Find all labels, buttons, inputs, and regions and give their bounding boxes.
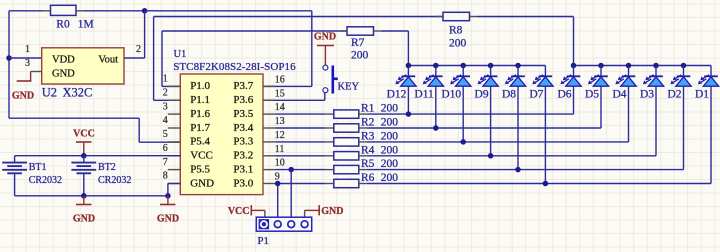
svg-text:VCC: VCC [73,129,95,140]
label D3 [640,89,654,101]
wire P1.1 to R8 (outer line) [154,17,443,101]
svg-text:CR2032: CR2032 [29,175,62,186]
svg-text:U1: U1 [174,49,187,60]
wire P1.0 to R7 (inner line) [162,31,347,86]
resistor R3 [276,138,629,146]
LED D3 [643,66,664,156]
node D8 to R5 row junction [515,167,521,173]
node LED bus junction [681,63,687,69]
svg-text:P5.4: P5.4 [190,136,210,148]
pin number 6 of U1 [163,143,168,154]
pin number 15 of U1 [275,88,285,99]
pin number 3 of U1 [163,101,168,112]
pin number 9 of U1 [275,172,280,183]
node D12 to R1 row junction [406,111,412,117]
label R6 200 [361,172,398,184]
svg-text:VCC: VCC [228,206,250,217]
svg-text:D11: D11 [414,89,434,101]
label U2 X32C [42,86,93,100]
LED D5 [588,66,609,129]
svg-text:6: 6 [163,143,168,154]
node R0 right junction [142,8,148,14]
svg-text:R2: R2 [361,117,375,129]
svg-text:8: 8 [163,171,168,182]
label R3 200 [361,130,398,142]
wire P1 pin4 stub [304,210,306,217]
svg-text:GND: GND [52,68,75,79]
svg-text:P1.1: P1.1 [190,94,210,106]
resistor R5 [276,165,684,173]
label D1 [695,89,709,101]
pin number 11 of U1 [275,144,285,155]
svg-text:R4: R4 [361,144,375,156]
resistor R8 [435,12,574,65]
wire R0 left + left vertical rail [9,11,180,142]
svg-text:P3.4: P3.4 [233,122,253,134]
svg-text:R1: R1 [361,103,375,115]
svg-text:10: 10 [275,158,285,169]
svg-text:P3.5: P3.5 [233,108,253,120]
label BT1 CR2032 [29,175,62,186]
node D9 to R4 row junction [488,153,494,159]
svg-text:VDD: VDD [52,54,75,65]
pin number 1 of U2 [25,44,30,55]
node LED bus junction [460,63,466,69]
svg-text:13: 13 [275,116,285,127]
svg-text:D9: D9 [475,89,489,101]
resistor R2 [276,124,602,132]
svg-text:D6: D6 [557,89,571,101]
svg-text:200: 200 [381,130,399,142]
node P3.0 to P1 junction [275,181,281,187]
svg-text:P5.5: P5.5 [190,163,210,175]
LED D8 [505,66,526,170]
label R4 200 [361,144,398,156]
svg-text:R0: R0 [56,19,70,31]
node U1 GND junction [165,193,171,199]
node VCC-BT2 junction [81,153,87,159]
svg-text:GND: GND [157,214,179,225]
node U2 VDD junction [6,55,12,61]
wire LED bus left (R7 group) [408,65,545,67]
svg-text:X32C: X32C [63,86,93,100]
ground GND below batteries [73,196,95,225]
node BT2 GND junction [81,193,87,199]
label D12 [387,89,407,101]
node LED bus junction [598,63,604,69]
LED D2 [670,66,691,170]
pin number 1 of U1 [163,74,168,85]
resistor R6 [276,179,712,187]
IC U1 STC8F2K08S2 body [168,74,276,195]
label BT2 CR2032 [98,175,131,186]
pin number 16 of U1 [275,74,285,85]
wire P1 pin2 to P3.0 [277,184,279,218]
svg-text:P3.0: P3.0 [233,177,253,189]
svg-text:CR2032: CR2032 [98,175,131,186]
label KEY [338,82,360,93]
svg-text:P3.1: P3.1 [233,163,253,175]
label D8 [502,89,516,101]
svg-text:R8: R8 [449,25,463,37]
wire LED bus right (R8 group) [574,65,712,67]
LED D9 [478,66,499,156]
LED D4 [615,66,636,142]
ground GND above KEY [314,32,336,65]
svg-text:D3: D3 [640,89,654,101]
svg-text:11: 11 [275,144,285,155]
svg-text:R5: R5 [361,158,375,170]
svg-text:16: 16 [275,74,285,85]
label D2 [667,89,681,101]
svg-text:P1.7: P1.7 [190,122,210,134]
svg-text:GND: GND [314,32,336,43]
power VCC symbol at batteries [73,129,95,156]
node LED bus junction [515,63,521,69]
svg-text:BT1: BT1 [29,162,47,173]
connector P1 [256,217,311,231]
label R2 200 [361,117,398,129]
LED D10 [450,66,471,142]
node LED bus junction [653,63,659,69]
node LED bus junction [626,63,632,69]
svg-text:U2: U2 [42,86,57,100]
label D7 [529,89,543,101]
svg-text:GND: GND [190,177,214,189]
svg-text:STC8F2K08S2-28I-SOP16: STC8F2K08S2-28I-SOP16 [173,61,296,73]
wire net P3.7 top (to KEY branch) [145,11,312,87]
svg-text:7: 7 [163,157,168,168]
label BT1 [29,162,47,173]
svg-text:D5: D5 [585,89,599,101]
svg-text:P3.6: P3.6 [233,94,253,106]
pin number 2 of U2 [136,44,141,55]
pin number 3 of U2 [25,58,30,69]
node D11 to R2 row junction [433,125,439,131]
node LED bus junction [571,63,577,69]
pin number 5 of U1 [163,129,168,140]
svg-text:GND: GND [12,91,34,102]
svg-text:P3.2: P3.2 [233,150,253,162]
svg-text:3: 3 [163,101,168,112]
resistor R7 [339,27,408,66]
svg-text:D12: D12 [387,89,407,101]
label U1 [174,49,187,60]
label BT2 [98,162,116,173]
pin number 2 of U1 [163,88,168,99]
svg-text:D10: D10 [441,89,461,101]
label D5 [585,89,599,101]
svg-text:2: 2 [136,44,141,55]
node D7 to R6 row junction [543,181,549,187]
wire P1 pin3 to P3.1 [290,170,292,218]
label D9 [475,89,489,101]
LED D7 [532,66,553,184]
svg-text:D4: D4 [612,89,626,101]
wire junction to U2 Vout pin 2 [124,11,145,58]
wire U1 pin 8 GND [168,184,180,196]
svg-text:P3.7: P3.7 [233,80,253,92]
svg-text:VCC: VCC [190,150,213,162]
svg-text:200: 200 [381,144,399,156]
node LED bus junction [433,63,439,69]
svg-text:200: 200 [381,103,399,115]
LED D12 [395,66,416,115]
LED D6 [560,66,581,115]
op-amp U2 X32C oscillator body [31,48,124,84]
pin number 13 of U1 [275,116,285,127]
battery BT2 CR2032 [71,156,96,196]
svg-text:GND: GND [321,206,343,217]
svg-text:200: 200 [381,117,399,129]
resistor R1 [276,110,574,118]
label D10 [441,89,461,101]
ground GND below U1 pin 8 [157,196,179,225]
svg-text:D2: D2 [667,89,681,101]
svg-text:1: 1 [25,44,30,55]
label R0 1M [56,19,93,31]
wire P3.6 to KEY [263,93,325,101]
label R7 200 [351,37,369,62]
battery BT1 CR2032 [2,156,27,196]
LED D11 [423,66,444,129]
svg-text:BT2: BT2 [98,162,116,173]
LED D1 [698,66,719,184]
pin number 12 of U1 [275,130,285,141]
label D11 [414,89,434,101]
label R8 200 [449,25,467,50]
svg-text:3: 3 [25,58,30,69]
pin number 4 of U1 [163,115,168,126]
resistor R0 [43,5,145,15]
svg-text:200: 200 [449,38,467,50]
svg-text:14: 14 [275,102,285,113]
label U1 part number [173,61,296,73]
label D6 [557,89,571,101]
node LED bus junction [406,63,412,69]
label P1 [257,235,269,247]
label R5 200 [361,158,398,170]
svg-text:200: 200 [381,158,399,170]
wire P1 pin1 stub [264,210,266,217]
resistor R4 [276,152,657,160]
label D4 [612,89,626,101]
svg-text:D8: D8 [502,89,516,101]
power VCC at P1 [228,205,265,217]
pin number 8 of U1 [163,171,168,182]
pin number 14 of U1 [275,102,285,113]
svg-text:P1: P1 [257,235,269,247]
node D10 to R3 row junction [460,139,466,145]
svg-text:R3: R3 [361,130,375,142]
svg-text:5: 5 [163,129,168,140]
node P3.1 to P1 junction [288,167,294,173]
svg-text:D7: D7 [529,89,543,101]
svg-text:Vout: Vout [98,54,118,65]
svg-text:R6: R6 [361,172,375,184]
wire bottom GND rail [15,195,168,197]
svg-text:P1.6: P1.6 [190,108,210,120]
svg-text:R7: R7 [351,37,365,49]
svg-text:2: 2 [163,88,168,99]
svg-text:12: 12 [275,130,285,141]
svg-text:200: 200 [351,50,369,62]
svg-text:KEY: KEY [338,82,360,93]
ground GND at U2 pin 3 [12,72,34,102]
svg-text:D1: D1 [695,89,709,101]
svg-text:P1.0: P1.0 [190,80,210,92]
svg-text:P3.3: P3.3 [233,136,253,148]
power GND at P1 [305,205,344,217]
pin number 7 of U1 [163,157,168,168]
label R1 200 [361,103,398,115]
wire VCC rail to U1 pin 6 [15,155,181,157]
svg-text:GND: GND [73,214,95,225]
svg-text:1: 1 [163,74,168,85]
svg-text:15: 15 [275,88,285,99]
pin number 10 of U1 [275,158,285,169]
wire U2 VDD pin 1 [9,57,42,59]
svg-text:200: 200 [381,172,399,184]
svg-text:4: 4 [163,115,168,126]
node LED bus junction [488,63,494,69]
svg-text:1M: 1M [78,19,94,31]
switch KEY [323,65,338,93]
